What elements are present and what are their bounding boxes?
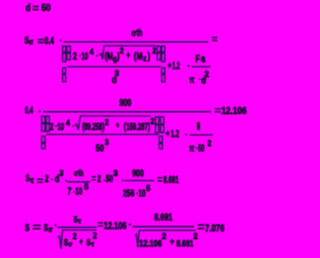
- svg-text:2: 2: [50, 122, 54, 133]
- svg-text:10: 10: [81, 52, 88, 63]
- svg-text:2: 2: [120, 46, 124, 55]
- svg-text:F: F: [196, 54, 200, 65]
- svg-text:12.106: 12.106: [139, 239, 162, 250]
- svg-text:3: 3: [115, 69, 120, 78]
- svg-text:8.691: 8.691: [154, 213, 173, 224]
- svg-text:+: +: [126, 50, 130, 60]
- svg-text:2: 2: [152, 46, 156, 55]
- svg-text:1.2: 1.2: [172, 61, 180, 72]
- svg-text:2: 2: [73, 232, 77, 241]
- svg-text:50: 50: [96, 143, 105, 154]
- svg-text:900: 900: [119, 98, 131, 109]
- svg-text:2: 2: [45, 174, 49, 185]
- svg-text:1.2: 1.2: [171, 129, 180, 140]
- svg-text:3: 3: [113, 169, 118, 178]
- svg-text:d: d: [26, 3, 31, 14]
- svg-text:+: +: [170, 236, 175, 246]
- svg-text:89.258: 89.258: [84, 122, 102, 133]
- svg-text:12.106: 12.106: [104, 221, 127, 232]
- svg-text:+: +: [166, 129, 170, 140]
- svg-text:0.4: 0.4: [44, 36, 54, 47]
- svg-text:M: M: [137, 52, 143, 63]
- svg-text:z: z: [143, 54, 147, 63]
- svg-text:12.106: 12.106: [221, 106, 247, 117]
- svg-text:th: th: [78, 168, 83, 179]
- svg-text:2: 2: [97, 174, 101, 185]
- svg-text:σ: σ: [29, 38, 34, 47]
- svg-text:50: 50: [41, 3, 51, 14]
- svg-text:5: 5: [146, 184, 151, 193]
- svg-text:3: 3: [59, 169, 63, 178]
- svg-text:+: +: [79, 236, 83, 246]
- svg-text:7: 7: [67, 187, 71, 198]
- svg-text:256: 256: [123, 188, 135, 199]
- svg-text:2: 2: [73, 52, 77, 63]
- svg-text:S: S: [25, 223, 30, 234]
- svg-text:2: 2: [204, 70, 209, 79]
- svg-text:2: 2: [162, 232, 167, 241]
- svg-text:a: a: [201, 54, 206, 65]
- svg-text:5: 5: [84, 183, 89, 192]
- svg-text:M: M: [107, 52, 113, 63]
- svg-text:2: 2: [93, 232, 97, 241]
- svg-text:π: π: [190, 75, 195, 86]
- svg-text:4: 4: [66, 118, 70, 127]
- svg-text:σ: σ: [48, 225, 52, 234]
- svg-text:7.076: 7.076: [205, 224, 225, 235]
- svg-text:10: 10: [138, 188, 145, 199]
- svg-text:0.4: 0.4: [25, 105, 33, 116]
- svg-text:+: +: [116, 120, 119, 130]
- svg-text:50: 50: [198, 144, 205, 155]
- svg-text:4: 4: [90, 47, 94, 56]
- svg-text:): ): [148, 52, 150, 63]
- svg-text:τ: τ: [30, 176, 34, 185]
- svg-text:2: 2: [105, 118, 109, 127]
- svg-text:2: 2: [208, 139, 212, 148]
- svg-text:2: 2: [150, 117, 154, 126]
- svg-text:159.287: 159.287: [126, 122, 148, 133]
- svg-text:8.691: 8.691: [163, 175, 178, 186]
- svg-text:8.691: 8.691: [176, 239, 194, 250]
- svg-text:10: 10: [75, 187, 82, 198]
- svg-text:+: +: [168, 61, 172, 72]
- svg-text:3: 3: [105, 138, 109, 147]
- svg-text:2: 2: [193, 232, 198, 241]
- svg-text:900: 900: [132, 169, 144, 180]
- svg-text:10: 10: [57, 122, 64, 133]
- svg-text:50: 50: [106, 174, 113, 185]
- svg-text:th: th: [137, 28, 143, 39]
- svg-text:π: π: [189, 144, 194, 155]
